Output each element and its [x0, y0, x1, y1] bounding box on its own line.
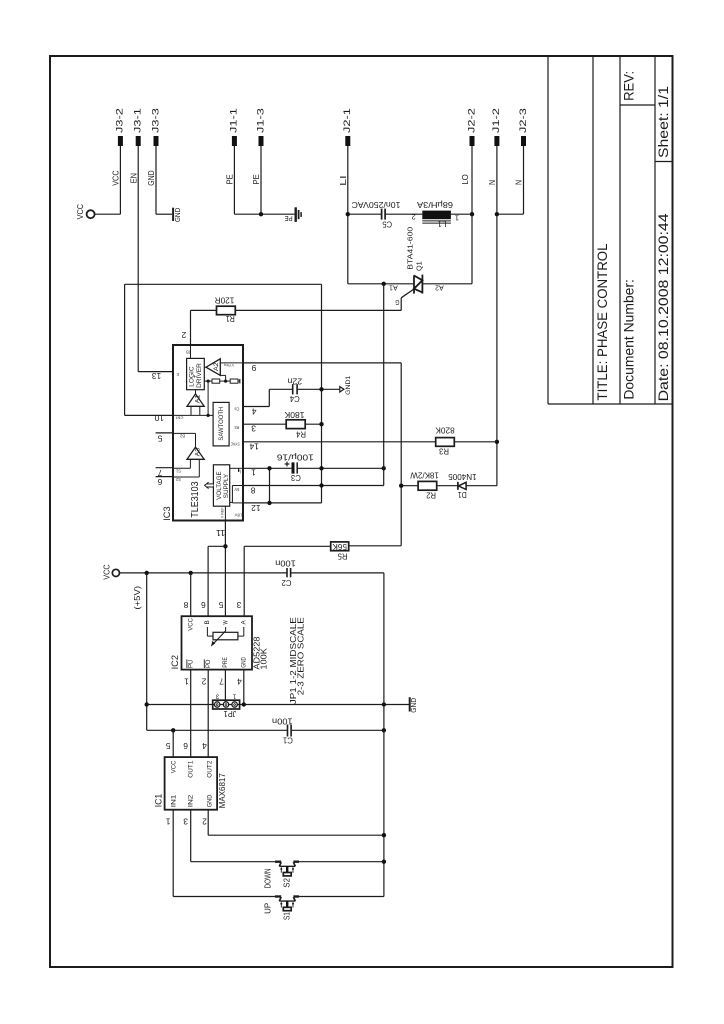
svg-text:8: 8: [183, 600, 188, 609]
svg-text:J1-3: J1-3: [255, 108, 265, 133]
svg-text:56K: 56K: [332, 542, 347, 552]
svg-text:5: 5: [218, 600, 223, 609]
svg-text:A2: A2: [213, 362, 220, 371]
svg-text:100K: 100K: [260, 647, 269, 669]
svg-text:100µ/16: 100µ/16: [277, 452, 314, 462]
svg-text:B2: B2: [179, 433, 185, 438]
svg-text:Document Number:: Document Number:: [622, 279, 637, 400]
svg-text:5: 5: [165, 741, 170, 750]
svg-text:J2-2: J2-2: [466, 108, 476, 133]
svg-text:J2-3: J2-3: [518, 108, 528, 133]
svg-text:IC1: IC1: [154, 794, 164, 808]
svg-text:6: 6: [157, 477, 162, 486]
svg-text:1: 1: [165, 816, 170, 825]
svg-text:Cs: Cs: [234, 407, 239, 412]
svg-text:OUT2: OUT2: [207, 760, 214, 777]
svg-text:PRE: PRE: [222, 657, 229, 668]
svg-text:G: G: [395, 298, 399, 305]
svg-text:UP: UP: [264, 902, 273, 914]
svg-text:D1: D1: [458, 490, 467, 500]
svg-text:2: 2: [181, 330, 186, 339]
svg-text:180K: 180K: [284, 410, 304, 420]
svg-text:C2: C2: [281, 578, 291, 588]
svg-text:2: 2: [411, 213, 415, 220]
svg-text:1: 1: [251, 468, 256, 477]
svg-text:J2-1: J2-1: [342, 108, 352, 133]
svg-text:4.8V: 4.8V: [235, 513, 244, 518]
svg-text:PU: PU: [187, 659, 194, 668]
svg-text:IN1: IN1: [170, 794, 177, 807]
svg-text:R3: R3: [439, 447, 449, 457]
svg-text:C1: C1: [283, 735, 293, 745]
svg-text:2: 2: [202, 816, 207, 825]
svg-text:5: 5: [157, 433, 162, 442]
svg-text:IC3: IC3: [162, 506, 172, 520]
svg-text:VCC: VCC: [76, 204, 85, 219]
svg-text:A1: A1: [389, 284, 398, 291]
svg-text:REV:: REV:: [622, 71, 637, 101]
svg-text:A: A: [241, 620, 248, 625]
svg-text:10n/250VAC: 10n/250VAC: [352, 200, 401, 210]
svg-text:E: E: [176, 372, 179, 377]
svg-text:6: 6: [200, 600, 205, 609]
svg-text:PE: PE: [252, 174, 261, 185]
svg-text:R5: R5: [337, 551, 347, 561]
svg-text:TLE3103: TLE3103: [190, 481, 201, 517]
svg-text:22n: 22n: [287, 377, 302, 387]
svg-text:ctrl: ctrl: [175, 416, 183, 421]
svg-text:OUT1: OUT1: [188, 760, 195, 777]
svg-text:6: 6: [183, 741, 188, 750]
svg-text:B: B: [204, 620, 211, 625]
svg-text:TB: TB: [186, 350, 191, 355]
svg-text:J3-3: J3-3: [150, 108, 160, 133]
svg-text:1N4005: 1N4005: [448, 472, 477, 482]
svg-text:2: 2: [201, 676, 206, 685]
svg-text:+: +: [192, 375, 199, 379]
svg-text:R1: R1: [226, 314, 235, 324]
svg-text:13: 13: [151, 371, 161, 380]
svg-text:SYNC: SYNC: [231, 441, 240, 446]
svg-text:4: 4: [236, 677, 241, 686]
svg-text:GND: GND: [207, 794, 214, 807]
svg-text:PE: PE: [226, 174, 235, 185]
svg-text:GND: GND: [147, 170, 156, 185]
svg-text:PD: PD: [205, 659, 212, 668]
svg-text:N: N: [515, 180, 524, 185]
svg-text:C3: C3: [291, 473, 301, 483]
svg-text:5V: 5V: [234, 487, 239, 492]
svg-text:7: 7: [219, 677, 224, 686]
svg-text:Rs: Rs: [234, 425, 239, 430]
svg-text:Sheet: 1/1: Sheet: 1/1: [656, 86, 671, 158]
svg-text:A2: A2: [435, 284, 444, 291]
svg-text:J3-1: J3-1: [133, 108, 143, 133]
svg-text:S1: S1: [175, 468, 181, 473]
svg-text:VCC: VCC: [112, 170, 121, 185]
svg-text:L1: L1: [437, 219, 446, 229]
svg-text:J3-2: J3-2: [115, 108, 125, 133]
svg-text:A1: A1: [194, 394, 201, 403]
svg-text:LI: LI: [339, 175, 348, 185]
svg-text:S1: S1: [282, 912, 291, 920]
svg-text:2-3 ZERO SCALE: 2-3 ZERO SCALE: [296, 617, 306, 695]
svg-text:1: 1: [455, 214, 459, 221]
svg-text:100n: 100n: [275, 558, 296, 568]
svg-text:TITLE: PHASE CONTROL: TITLE: PHASE CONTROL: [595, 243, 611, 400]
svg-text:3: 3: [183, 816, 188, 825]
svg-text:VCC: VCC: [170, 760, 177, 773]
svg-text:VOLTAGE: VOLTAGE: [217, 471, 223, 499]
svg-text:68µH/3A: 68µH/3A: [417, 200, 453, 210]
svg-text:120R: 120R: [215, 296, 235, 306]
svg-text:4: 4: [202, 741, 207, 750]
svg-text:A3: A3: [194, 447, 201, 456]
svg-text:PE: PE: [284, 214, 292, 221]
svg-text:SUPPLY: SUPPLY: [224, 474, 230, 498]
svg-text:JP1: JP1: [223, 709, 236, 719]
svg-text:V Reg: V Reg: [224, 363, 234, 368]
svg-text:MAX6817: MAX6817: [218, 773, 227, 809]
svg-text:4: 4: [251, 406, 256, 415]
svg-text:11: 11: [215, 528, 225, 537]
svg-text:GND: GND: [411, 698, 418, 713]
svg-text:14: 14: [249, 441, 259, 450]
svg-text:820K: 820K: [435, 426, 455, 436]
svg-text:J1-2: J1-2: [491, 108, 501, 133]
svg-text:GND: GND: [241, 657, 248, 668]
svg-text:3: 3: [251, 424, 256, 433]
svg-text:12: 12: [251, 503, 261, 512]
svg-text:GND: GND: [175, 208, 182, 222]
svg-text:9: 9: [251, 363, 256, 372]
svg-text:R2: R2: [426, 491, 436, 501]
svg-text:S2: S2: [175, 477, 181, 482]
svg-text:EN: EN: [129, 173, 138, 183]
svg-text:(+5V): (+5V): [133, 586, 142, 610]
svg-text:VCC: VCC: [103, 564, 112, 579]
svg-text:N: N: [488, 180, 497, 185]
svg-text:8: 8: [250, 485, 255, 494]
svg-text:C5: C5: [382, 219, 392, 229]
svg-text:GND1: GND1: [345, 375, 352, 394]
svg-text:W: W: [222, 620, 229, 625]
svg-text:VCC: VCC: [187, 618, 194, 631]
svg-text:C4: C4: [290, 394, 300, 404]
svg-text:1: 1: [184, 676, 189, 685]
svg-text:DOWN: DOWN: [264, 868, 273, 888]
svg-text:18K/2W: 18K/2W: [409, 470, 438, 480]
svg-text:3: 3: [236, 600, 241, 609]
svg-text:IC2: IC2: [170, 655, 180, 669]
svg-text:IN2: IN2: [188, 794, 195, 807]
svg-text:BTA41-600: BTA41-600: [408, 227, 415, 270]
svg-text:Date: 08.10.2008 12:00:44: Date: 08.10.2008 12:00:44: [656, 213, 671, 401]
svg-text:J1-1: J1-1: [229, 108, 239, 133]
svg-text:R4: R4: [296, 429, 306, 439]
svg-text:SAWTOOTH: SAWTOOTH: [218, 406, 225, 440]
svg-text:Q1: Q1: [416, 261, 423, 271]
svg-text:LO: LO: [461, 174, 470, 184]
svg-text:100n: 100n: [272, 717, 293, 727]
svg-text:V REF: V REF: [219, 507, 224, 519]
svg-text:7: 7: [157, 468, 162, 477]
svg-text:S2: S2: [282, 878, 291, 888]
svg-text:10: 10: [154, 413, 164, 422]
